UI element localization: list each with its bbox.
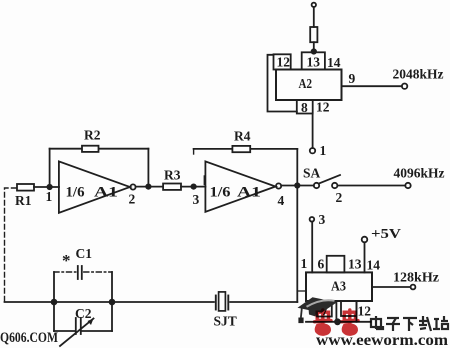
label A2 bbox=[299, 77, 313, 92]
label 1/6 A1 (inverter 2) bbox=[210, 185, 262, 201]
pin label 1 (switch pos 1) bbox=[320, 143, 327, 158]
xia bbox=[403, 317, 417, 319]
svg-text:8: 8 bbox=[301, 100, 308, 115]
label R3 bbox=[164, 168, 181, 183]
watermark: red character chong 2 bbox=[342, 310, 359, 336]
svg-text:A2: A2 bbox=[299, 77, 313, 92]
svg-text:A3: A3 bbox=[331, 280, 346, 295]
wire: resistor to A2 pin 13 bbox=[313, 42, 315, 52]
svg-text:6: 6 bbox=[318, 257, 325, 272]
pin label 8 (A2 bottom) bbox=[301, 100, 308, 115]
op-amp inverter 1 (1/6 A1) bbox=[59, 161, 130, 212]
svg-text:www.eeworm.com: www.eeworm.com bbox=[316, 332, 449, 348]
wire: inverter2 output to switch pole bbox=[281, 185, 314, 187]
resistor R1 bbox=[17, 184, 34, 191]
wire: R4 feedback top bbox=[194, 148, 298, 150]
resistor (unlabeled, top) bbox=[310, 27, 317, 42]
wire: switch pos2 to 4096kHz terminal bbox=[338, 185, 406, 187]
label * (selected value mark) bbox=[62, 251, 71, 270]
wire: C1 branch right vertical bbox=[111, 272, 113, 302]
watermark: text dianzi xiazaizhan bbox=[371, 316, 448, 331]
pin label 14 (A2 top) bbox=[327, 55, 341, 70]
wire: ground rail under A3 bbox=[306, 321, 371, 323]
svg-text:C2: C2 bbox=[75, 306, 92, 321]
wire: A3 pin1 stub bbox=[297, 290, 306, 292]
capacitor C2 (variable) bbox=[54, 318, 112, 346]
zi bbox=[387, 317, 399, 319]
pin label 1 (A3 top) bbox=[301, 256, 308, 271]
wire: R1 to inverter 1 input bbox=[34, 186, 59, 188]
inverter 2 output bubble bbox=[276, 183, 281, 188]
svg-text:128kHz: 128kHz bbox=[393, 270, 439, 285]
svg-text:1: 1 bbox=[46, 189, 53, 204]
watermark: Q606.COM bbox=[0, 330, 58, 346]
svg-text:C1: C1 bbox=[76, 246, 93, 261]
wire: A2 pin12 down to switch position 1 bbox=[312, 114, 314, 149]
pin box 7 (A3 bottom) bbox=[317, 301, 332, 317]
wire: +5V terminal to A3 pin 14 bbox=[364, 242, 366, 272]
label R2 bbox=[84, 128, 101, 143]
terminal: 2048kHz output bbox=[402, 84, 407, 89]
switch contact 2 bbox=[332, 183, 337, 188]
wire: switch pos3 to A3 pin 6 bbox=[311, 222, 313, 273]
svg-text:12: 12 bbox=[277, 55, 291, 70]
inverter 1 output bubble bbox=[130, 184, 135, 189]
wire: A2 pin12 top to pin8 bottom (left loop) bbox=[268, 55, 297, 112]
svg-text:1/6: 1/6 bbox=[210, 185, 232, 201]
terminal: 128kHz output bbox=[411, 285, 416, 290]
wire: A3 pin12 to ground rail bbox=[356, 301, 358, 322]
wire: R2 feedback left vertical bbox=[49, 149, 51, 187]
switch contact 1 bbox=[310, 148, 315, 153]
watermark: graduation cap logo bbox=[298, 297, 338, 323]
junction: inverter1 output node bbox=[146, 184, 150, 188]
pin box 13 (A2 top) bbox=[302, 52, 325, 69]
pin label 14 (A3 top) bbox=[367, 258, 381, 273]
label A3 bbox=[331, 280, 346, 295]
label R4 bbox=[234, 129, 251, 144]
resistor R3 bbox=[163, 184, 181, 190]
wire: R3 to inverter 2 input bbox=[181, 186, 205, 188]
junction: inverter1 input node bbox=[47, 185, 51, 189]
terminal: +5V bbox=[362, 237, 368, 243]
label 128kHz bbox=[393, 270, 439, 285]
svg-text:14: 14 bbox=[327, 55, 341, 70]
terminal: top input bbox=[312, 3, 316, 7]
svg-text:2: 2 bbox=[336, 190, 343, 205]
label SJT bbox=[214, 314, 237, 329]
svg-text:*: * bbox=[62, 251, 71, 270]
pin label 1 (inverter input) bbox=[46, 189, 53, 204]
pin label 12 (A3 bottom) bbox=[358, 304, 372, 319]
wire: R4 feedback right vertical bbox=[296, 149, 298, 186]
pin box 12 (A2 top) bbox=[274, 54, 291, 69]
junction: node at inverter2 output / R4 / A3 bbox=[295, 183, 299, 187]
label SA bbox=[303, 166, 321, 181]
label +5V bbox=[371, 227, 401, 242]
pin label 9 (A2 right) bbox=[349, 71, 356, 86]
label R1 bbox=[15, 193, 32, 208]
resistor R2 bbox=[82, 146, 99, 152]
wire: R2 feedback right vertical bbox=[147, 149, 149, 187]
wire: C1 branch left vertical bbox=[53, 272, 55, 302]
svg-text:R3: R3 bbox=[164, 168, 181, 183]
pin box 8 (A2 bottom) bbox=[297, 100, 313, 114]
svg-text:A1: A1 bbox=[94, 185, 118, 201]
pin label 2 (switch pos 2) bbox=[336, 190, 343, 205]
wire: crystal rail left bbox=[5, 301, 214, 303]
dian bbox=[371, 319, 381, 327]
label 4096kHz bbox=[394, 166, 445, 181]
wire: R4 feedback left vertical bbox=[194, 149, 205, 185]
pin label 13 (A3 top) bbox=[348, 257, 362, 272]
wire: A3 output to 128kHz terminal bbox=[372, 286, 410, 288]
op-amp inverter 2 (1/6 A1) bbox=[205, 161, 275, 211]
svg-text:2048kHz: 2048kHz bbox=[393, 67, 444, 82]
pin label 13 (A2 top) bbox=[307, 55, 321, 70]
svg-text:12: 12 bbox=[358, 304, 372, 319]
switch SA pole contact bbox=[314, 183, 319, 188]
pin box (A3 top, between 6 and 13) bbox=[327, 256, 345, 273]
svg-text:3: 3 bbox=[193, 192, 200, 207]
svg-text:14: 14 bbox=[367, 258, 381, 273]
terminal: 4096kHz output bbox=[405, 183, 410, 188]
pin label 12 (A2 top) bbox=[277, 55, 291, 70]
wire: C2 branch left vertical bbox=[53, 302, 55, 331]
label C1 bbox=[76, 246, 93, 261]
pin label 4 (inverter 2 output) bbox=[278, 193, 285, 208]
IC A2 bbox=[276, 70, 342, 101]
wire: crystal to A3 pin1 node bbox=[230, 301, 297, 303]
svg-text:3: 3 bbox=[319, 212, 326, 227]
pin label 6 (A3 top) bbox=[318, 257, 325, 272]
label 2048kHz bbox=[393, 67, 444, 82]
svg-text:R4: R4 bbox=[234, 129, 251, 144]
svg-text:4096kHz: 4096kHz bbox=[394, 166, 445, 181]
zai bbox=[419, 320, 428, 322]
svg-text:R2: R2 bbox=[84, 128, 101, 143]
junction: ground rail bbox=[335, 319, 340, 324]
wire: node down to A3 pin 1 / crystal bbox=[296, 186, 298, 303]
IC A3 bbox=[306, 272, 372, 301]
svg-text:+5V: +5V bbox=[371, 227, 401, 242]
junction: C-loop right bbox=[110, 300, 115, 305]
svg-text:A1: A1 bbox=[237, 185, 261, 201]
svg-text:1/6: 1/6 bbox=[66, 185, 85, 201]
switch contact 3 bbox=[310, 217, 315, 222]
wire: R2 feedback top bbox=[50, 148, 149, 150]
junction: resistor to pin13 box bbox=[312, 49, 316, 53]
svg-text:13: 13 bbox=[348, 257, 362, 272]
watermark: red character chong 1 bbox=[315, 310, 332, 336]
svg-text:SJT: SJT bbox=[214, 314, 237, 329]
wire: A2 pin9 to 2048kHz terminal bbox=[342, 85, 402, 87]
label C2 bbox=[75, 306, 92, 321]
crystal SJT bbox=[216, 292, 229, 311]
pin label 3 (inverter 2 input) bbox=[193, 192, 200, 207]
wire: inverter1 output to R3 bbox=[136, 186, 164, 188]
pin label 12 (A2 bottom) bbox=[316, 100, 330, 115]
svg-text:12: 12 bbox=[316, 100, 330, 115]
resistor R4 bbox=[232, 146, 250, 152]
junction: R4 left connection bbox=[191, 184, 195, 188]
wire: A3 pin7 to ground rail bbox=[335, 301, 337, 322]
watermark: www.eeworm.com bbox=[316, 332, 449, 348]
switch SA arm bbox=[319, 175, 340, 184]
svg-text:2: 2 bbox=[129, 192, 136, 207]
wire: dashed link from R1 to crystal net bbox=[5, 188, 17, 302]
svg-text:1: 1 bbox=[320, 143, 327, 158]
wire: top terminal to resistor bbox=[313, 7, 315, 27]
svg-text:R1: R1 bbox=[15, 193, 32, 208]
zhan bbox=[434, 318, 439, 320]
junction: C-loop left bbox=[52, 300, 57, 305]
svg-text:Q606.COM: Q606.COM bbox=[0, 330, 58, 346]
pin label 3 (switch pos 3) bbox=[319, 212, 326, 227]
svg-text:4: 4 bbox=[278, 193, 285, 208]
pin label 2 (inverter 1 output) bbox=[129, 192, 136, 207]
svg-text:9: 9 bbox=[349, 71, 356, 86]
label 1/6 A1 (inverter 1) bbox=[66, 185, 119, 201]
wire: C2 branch right vertical bbox=[111, 302, 113, 331]
capacitor C1 (dash-dot branch) bbox=[54, 266, 112, 279]
pin box 12 (A3 bottom) bbox=[341, 301, 357, 316]
pin label 7 (A3 bottom) bbox=[322, 303, 329, 318]
svg-text:1: 1 bbox=[301, 256, 308, 271]
svg-text:SA: SA bbox=[303, 166, 321, 181]
svg-text:13: 13 bbox=[307, 55, 321, 70]
